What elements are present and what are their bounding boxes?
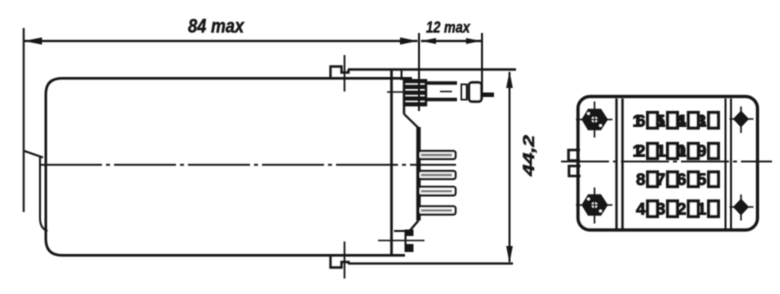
- svg-text:44,2: 44,2: [521, 135, 538, 177]
- svg-text:3: 3: [656, 200, 665, 219]
- svg-text:4: 4: [636, 200, 646, 219]
- svg-text:12 max: 12 max: [426, 20, 471, 37]
- svg-text:13: 13: [697, 112, 707, 131]
- svg-text:9: 9: [697, 142, 706, 161]
- svg-text:15: 15: [656, 112, 666, 131]
- svg-text:12: 12: [633, 142, 646, 161]
- svg-text:8: 8: [636, 170, 645, 189]
- svg-text:11: 11: [656, 142, 665, 161]
- svg-text:14: 14: [676, 112, 686, 131]
- svg-text:16: 16: [633, 112, 646, 131]
- svg-text:84 max: 84 max: [188, 17, 245, 38]
- svg-text:6: 6: [677, 170, 686, 189]
- svg-text:7: 7: [656, 170, 665, 189]
- svg-text:10: 10: [676, 142, 686, 161]
- svg-text:2: 2: [677, 200, 686, 219]
- svg-text:1: 1: [697, 200, 706, 219]
- svg-text:5: 5: [697, 170, 706, 189]
